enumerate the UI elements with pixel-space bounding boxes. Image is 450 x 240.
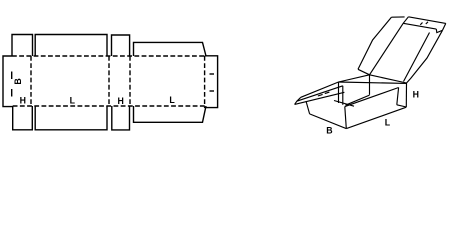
bottom flap 2 bbox=[35, 106, 107, 130]
top lid flap trapezoid bbox=[134, 42, 207, 56]
top flap 2 bbox=[35, 35, 107, 57]
left wall bottom edge bbox=[310, 114, 347, 129]
lid band step edge bbox=[436, 29, 442, 32]
back rim edge bbox=[339, 82, 407, 83]
svg-text:B: B bbox=[13, 78, 23, 84]
lid bottom hinge edge bbox=[370, 75, 407, 83]
lid band right edge bbox=[443, 23, 446, 30]
left wall band top line (rim) bbox=[301, 82, 339, 97]
fold L1/H2 dashed bbox=[108, 56, 110, 106]
svg-text:H: H bbox=[20, 96, 26, 106]
front wall bottom edge bbox=[346, 107, 406, 128]
end panel slit 2 bbox=[210, 90, 215, 92]
lid band slit 2 bbox=[426, 22, 428, 24]
bottom flap 1 bbox=[13, 106, 33, 130]
lid slant crease line bbox=[404, 33, 430, 82]
top flap 3 bbox=[112, 35, 130, 56]
svg-text:H: H bbox=[413, 89, 419, 99]
right corner edge up to hinge bbox=[405, 83, 407, 107]
lid side flap left edge bbox=[358, 17, 391, 69]
svg-text:B: B bbox=[326, 126, 332, 136]
front wall right edge bbox=[397, 88, 399, 105]
svg-text:L: L bbox=[169, 95, 175, 105]
svg-text:L: L bbox=[70, 95, 76, 105]
floor edge left inner bbox=[334, 101, 354, 107]
end panel bbox=[205, 56, 218, 108]
lid junction vertical bbox=[369, 75, 371, 95]
bottom lid flap trapezoid bbox=[134, 106, 207, 122]
lid band top edge bbox=[408, 17, 445, 24]
floor edge back inner bbox=[346, 95, 370, 105]
rim to lid junction line bbox=[339, 75, 370, 82]
fold line bottom dashed bbox=[13, 105, 205, 107]
band slit 1 bbox=[318, 94, 323, 96]
bottom flap 3 bbox=[112, 106, 130, 130]
svg-text:H: H bbox=[117, 96, 123, 106]
left wall band middle line bbox=[297, 86, 343, 101]
left outer edge bbox=[3, 56, 13, 107]
lid main left edge bbox=[370, 23, 404, 75]
fold line top dashed bbox=[12, 55, 205, 57]
lid side flap top edge bbox=[391, 16, 404, 18]
lid right edge bbox=[407, 30, 443, 83]
lid side flap bottom edge bbox=[358, 69, 370, 75]
left wall band bottom line bbox=[295, 92, 345, 104]
fold H2/L2 dashed bbox=[129, 56, 131, 106]
front wall top edge bbox=[345, 88, 399, 107]
lid band slit 1 bbox=[420, 23, 422, 25]
top flap 1 bbox=[12, 35, 33, 57]
lid top-left corner edge bbox=[403, 17, 408, 24]
glue fold dashed x=8 bbox=[11, 72, 13, 98]
end panel slit 1 bbox=[210, 73, 215, 75]
fold H1/L1 dashed bbox=[30, 56, 32, 106]
front-left corner edge bbox=[345, 107, 347, 129]
lid band bottom edge bbox=[403, 23, 436, 29]
inner back-left corner line 2 bbox=[342, 86, 344, 105]
right wall bottom sliver bbox=[397, 105, 407, 107]
svg-text:L: L bbox=[385, 117, 391, 127]
left wall face left edge bbox=[306, 101, 310, 114]
fold L2/end dashed bbox=[204, 56, 206, 108]
inner back-left corner line 1 bbox=[338, 82, 340, 103]
band slit 2 bbox=[325, 92, 330, 94]
band left cap bbox=[295, 97, 301, 104]
